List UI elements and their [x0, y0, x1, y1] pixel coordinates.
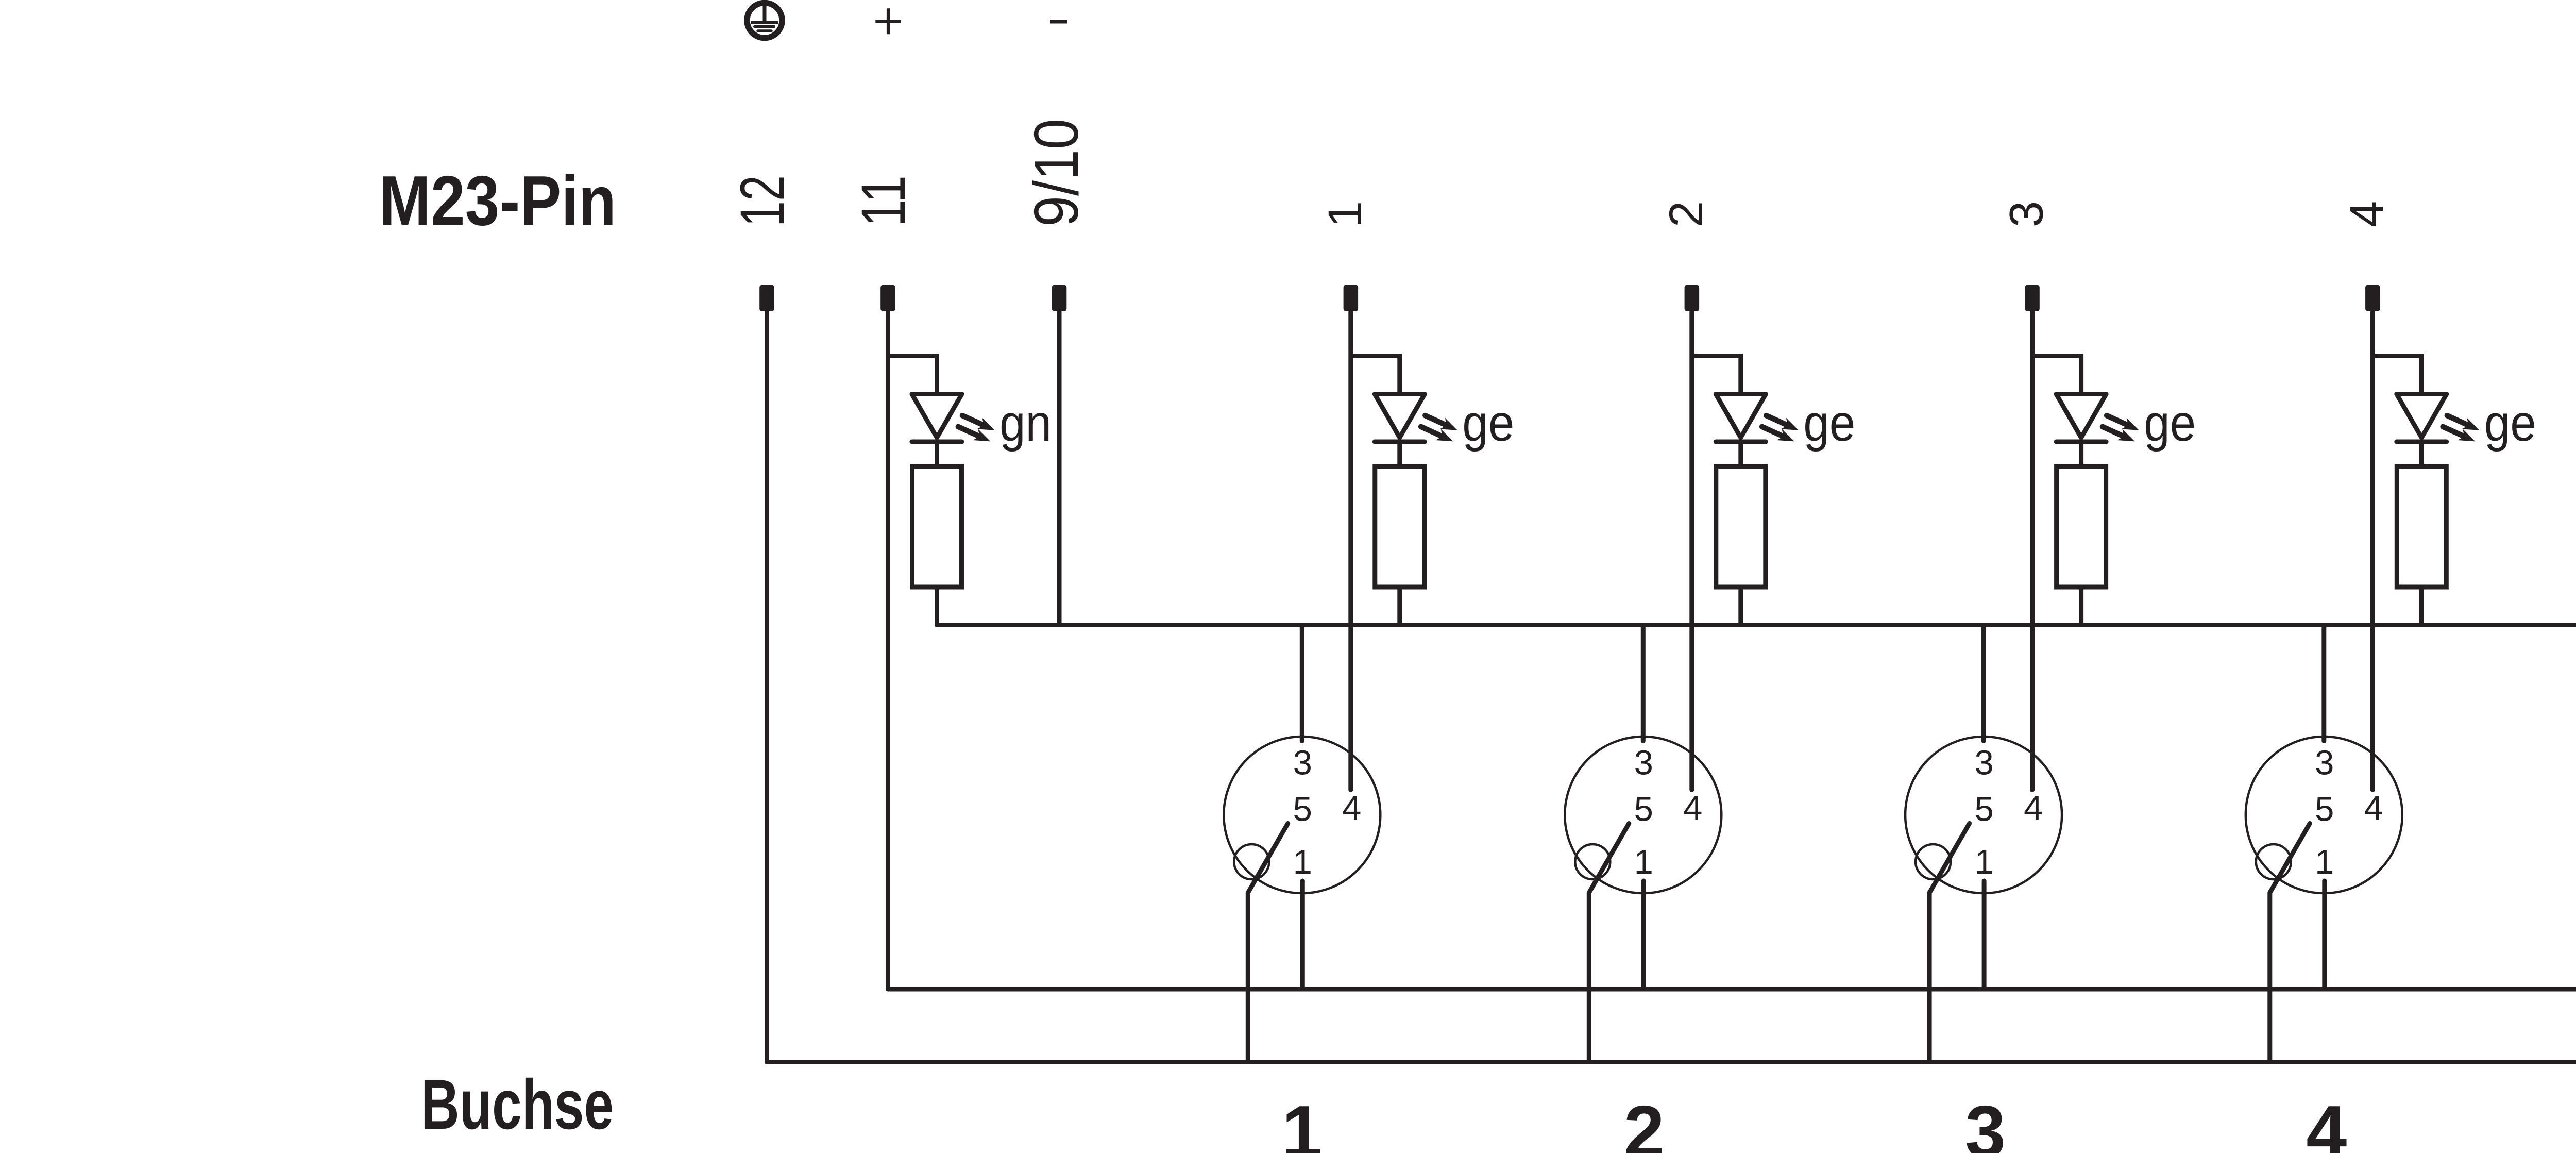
- LED status indicator channel 3 (yellow): [2056, 354, 2139, 468]
- wire net +24V: pin 11 down and across to socket 8 contact 1: [888, 311, 2576, 989]
- svg-text:1: 1: [1282, 1091, 1323, 1153]
- socket (Buchse) 2 M12: [1565, 737, 1721, 893]
- svg-text:ge: ge: [2484, 394, 2536, 452]
- wire 0V bus to socket 4 contact 3: [2321, 627, 2326, 741]
- terminal M23 pin 3: [2025, 285, 2040, 312]
- svg-text:ge: ge: [2144, 394, 2196, 452]
- resistor for LED channel 2: [1716, 466, 1766, 588]
- resistor for power LED: [912, 466, 962, 588]
- wire resistor 4 to 0V bus: [2419, 587, 2424, 627]
- wire 0V bus to socket 2 contact 3: [1641, 627, 1646, 741]
- svg-text:Buchse: Buchse: [421, 1065, 614, 1144]
- protective earth symbol: [747, 3, 782, 38]
- wire 0V bus to socket 1 contact 3: [1300, 627, 1304, 741]
- wire resistor 2 to 0V bus: [1738, 587, 1743, 627]
- wire resistor 3 to 0V bus: [2079, 587, 2083, 627]
- svg-text:4: 4: [2341, 201, 2393, 227]
- svg-text:9/10: 9/10: [1021, 119, 1091, 227]
- resistor for LED channel 4: [2397, 466, 2446, 588]
- minus (0V) symbol: [1050, 20, 1067, 24]
- plus (+24V) symbol: [875, 8, 901, 34]
- wire socket 1 contact 1 to +24V net: [1300, 881, 1305, 989]
- svg-text:3: 3: [1965, 1091, 2006, 1153]
- wire branch pin 2 to status LED 2: [1692, 354, 1741, 358]
- svg-text:ge: ge: [1803, 394, 1855, 452]
- LED status indicator channel 4 (yellow): [2397, 354, 2480, 468]
- socket (Buchse) 4 M12: [2246, 737, 2402, 893]
- socket (Buchse) 1 M12: [1224, 737, 1380, 893]
- wire branch pin 4 to status LED 4: [2372, 354, 2421, 358]
- svg-text:2: 2: [1624, 1091, 1665, 1153]
- svg-text:11: 11: [849, 175, 919, 227]
- wire socket 2 contact 5 diagonal to PE net: [1589, 824, 1629, 1062]
- terminal M23 pin 11: [880, 285, 895, 312]
- terminal M23 pin 12: [759, 285, 774, 312]
- wire M23 pin 2 down to socket 2 contact 4: [1689, 311, 1694, 790]
- wire socket 3 contact 1 to +24V net: [1982, 881, 1987, 989]
- wire 0V bus (horizontal) with end leads from resistors of pin 11 and pin 8 channels: [937, 587, 2576, 625]
- LED status indicator channel 1 (yellow): [1375, 354, 1458, 468]
- wire socket 4 contact 1 to +24V net: [2322, 881, 2327, 989]
- wire branch pin 3 to status LED 3: [2032, 354, 2081, 358]
- svg-text:M23-Pin: M23-Pin: [379, 162, 616, 241]
- svg-text:ge: ge: [1462, 394, 1514, 452]
- wire branch pin 1 to status LED 1: [1351, 354, 1400, 358]
- wire resistor 1 to 0V bus: [1397, 587, 1402, 627]
- terminal M23 pin 9/10: [1052, 285, 1067, 312]
- wire socket 3 contact 5 diagonal to PE net: [1929, 824, 1970, 1062]
- svg-text:2: 2: [1660, 201, 1713, 227]
- LED power indicator (green): [912, 354, 995, 468]
- wire M23 pin 1 down to socket 1 contact 4: [1348, 311, 1353, 790]
- svg-text:4: 4: [2306, 1091, 2347, 1153]
- svg-text:1: 1: [1319, 201, 1371, 227]
- wire 0V bus to socket 3 contact 3: [1981, 627, 1986, 741]
- terminal M23 pin 2: [1685, 285, 1700, 312]
- wire branch pin 11 to power LED: [888, 354, 937, 358]
- wire pin 9/10 (0V) down to bus: [1057, 311, 1062, 627]
- wire M23 pin 4 down to socket 4 contact 4: [2370, 311, 2375, 790]
- LED status indicator channel 2 (yellow): [1716, 354, 1799, 468]
- wire socket 1 contact 5 diagonal to PE net: [1248, 824, 1288, 1062]
- resistor for LED channel 1: [1375, 466, 1425, 588]
- socket (Buchse) 3 M12: [1905, 737, 2062, 893]
- wire net PE: pin 12 down and across to socket 8 contact 5 diagonal: [767, 311, 2576, 1062]
- svg-text:gn: gn: [999, 394, 1052, 452]
- svg-text:12: 12: [727, 175, 798, 227]
- terminal M23 pin 4: [2365, 285, 2380, 312]
- wire M23 pin 3 down to socket 3 contact 4: [2030, 311, 2035, 790]
- svg-text:3: 3: [2001, 201, 2053, 227]
- terminal M23 pin 1: [1344, 285, 1359, 312]
- resistor for LED channel 3: [2057, 466, 2106, 588]
- wire socket 4 contact 5 diagonal to PE net: [2270, 824, 2310, 1062]
- wire socket 2 contact 1 to +24V net: [1641, 881, 1646, 989]
